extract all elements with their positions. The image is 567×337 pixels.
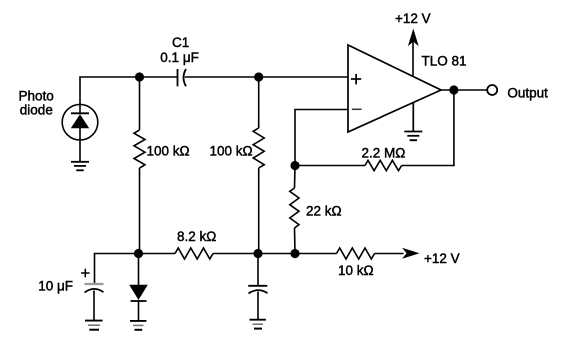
svg-text:10 kΩ: 10 kΩ — [338, 263, 374, 278]
svg-text:+12 V: +12 V — [395, 11, 431, 26]
ground (capacitor) — [250, 320, 266, 329]
svg-text:10 μF: 10 μF — [38, 279, 73, 294]
junction: top rail / R 100k right — [254, 72, 263, 81]
svg-text:C1: C1 — [172, 35, 189, 50]
svg-text:TLO 81: TLO 81 — [422, 54, 467, 69]
svg-text:Output: Output — [507, 85, 548, 100]
wire: photodiode lead up to top rail — [80, 77, 177, 105]
capacitor C1 — [178, 69, 187, 86]
label: 10 uF — [38, 279, 73, 294]
ground (op-amp) — [404, 103, 422, 140]
label: TLO 81 — [422, 54, 467, 69]
wire: bottom rail middle segment — [213, 253, 337, 255]
capacitor (bottom middle) — [248, 254, 267, 320]
resistor 2.2 MOhm (feedback) — [295, 160, 402, 170]
junction: bottom rail / diode — [134, 249, 143, 258]
output terminal — [487, 85, 497, 95]
ground (diode) — [130, 321, 146, 330]
wire: C1 right plate to op-amp + input — [185, 76, 348, 78]
svg-text:2.2 MΩ: 2.2 MΩ — [362, 146, 406, 161]
diode (bottom, to ground) — [129, 254, 148, 321]
ground (10 uF) — [85, 321, 103, 330]
label: +12 V (top) — [395, 11, 431, 26]
photodiode — [62, 104, 98, 161]
svg-text:22 kΩ: 22 kΩ — [306, 204, 342, 219]
label: +12 V (bottom) — [424, 251, 460, 266]
svg-text:100 kΩ: 100 kΩ — [147, 144, 190, 159]
op-amp U1 — [348, 45, 441, 132]
label: 2.2 MOhm — [362, 146, 406, 161]
svg-text:Photo: Photo — [19, 89, 54, 104]
label: C1 0.1 uF — [160, 35, 199, 65]
junction: feedback node — [290, 161, 299, 170]
label: 100 kOhm (right) — [210, 144, 253, 159]
ground (photodiode) — [71, 162, 89, 171]
svg-text:100 kΩ: 100 kΩ — [210, 144, 253, 159]
junction: top rail / R 100k left — [135, 72, 144, 81]
svg-text:+12 V: +12 V — [424, 251, 460, 266]
svg-text:0.1 μF: 0.1 μF — [160, 50, 199, 65]
svg-text:8.2 kΩ: 8.2 kΩ — [177, 229, 216, 244]
label: 8.2 kOhm — [177, 229, 216, 244]
label: 10 kOhm — [338, 263, 374, 278]
label: 22 kOhm — [306, 204, 342, 219]
wire: output node down to feedback rail — [402, 90, 454, 166]
wire + arrow: +12V (bottom) — [375, 248, 420, 259]
+12V supply arrow (op-amp) — [408, 29, 419, 77]
svg-text:diode: diode — [20, 102, 53, 117]
resistor 22 kOhm — [290, 166, 299, 254]
wire: op-amp output — [441, 89, 487, 91]
resistor 10 kOhm — [337, 248, 375, 259]
label: Output — [507, 85, 548, 100]
resistor 100 kOhm (left) — [134, 77, 145, 254]
junction: output node — [449, 85, 458, 94]
capacitor 10 uF (polarized) — [81, 269, 104, 320]
junction: bottom rail / 22k — [290, 249, 299, 258]
wire: inverting input — [295, 110, 348, 166]
wire: bottom rail left segment — [95, 254, 176, 284]
label: Photo diode — [19, 89, 54, 118]
resistor 100 kOhm (right) — [253, 77, 264, 254]
resistor 8.2 kOhm — [175, 248, 213, 259]
label: 100 kOhm (left) — [147, 144, 190, 159]
junction: bottom rail / capacitor — [253, 249, 262, 258]
